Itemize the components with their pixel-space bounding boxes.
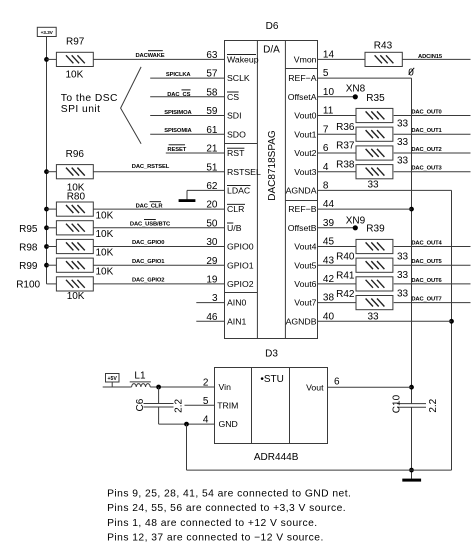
wire REF-B	[318, 208, 412, 210]
resistor R96	[56, 165, 93, 179]
wire SPISIMOA	[150, 115, 224, 117]
wire R95 left lead	[47, 227, 57, 229]
svg-text:RSTSEL: RSTSEL	[227, 167, 261, 177]
svg-text:DAC_GPIO2: DAC_GPIO2	[132, 278, 164, 284]
node bus-R99	[44, 263, 49, 268]
svg-text:8: 8	[323, 181, 329, 192]
svg-text:REF−A: REF−A	[288, 73, 316, 83]
svg-text:R100: R100	[16, 280, 40, 291]
svg-text:29: 29	[206, 256, 218, 267]
wire OffsetA	[318, 96, 355, 98]
svg-text:10K: 10K	[96, 248, 114, 259]
wire R99 left lead	[47, 264, 57, 266]
svg-text:38: 38	[323, 293, 335, 304]
svg-text:57: 57	[206, 69, 218, 80]
node AGNDB junction	[449, 319, 454, 324]
wire Vmon to R43	[318, 58, 365, 60]
node Vin/C6 junction	[156, 385, 161, 390]
svg-text:Wakeup: Wakeup	[227, 55, 259, 65]
wire R42 left lead	[318, 302, 356, 304]
svg-text:Vout: Vout	[306, 382, 324, 392]
svg-text:Vout0: Vout0	[294, 111, 316, 121]
wire R42 to DAC_OUT7	[394, 302, 471, 304]
svg-text:44: 44	[323, 199, 335, 210]
svg-text:DAC8718SPAG: DAC8718SPAG	[267, 130, 278, 201]
svg-text:10K: 10K	[66, 70, 84, 81]
svg-text:RESET: RESET	[167, 147, 186, 153]
svg-text:33: 33	[397, 251, 409, 262]
wire R40 left lead	[318, 264, 356, 266]
wire R98 to IC	[93, 246, 224, 248]
wire LDAC ground stub	[186, 190, 188, 199]
svg-text:SPICLKA: SPICLKA	[166, 72, 192, 78]
svg-text:51: 51	[206, 162, 218, 173]
wire R40 to DAC_OUT5	[394, 264, 471, 266]
svg-text:Vout6: Vout6	[294, 279, 316, 289]
resistor R42	[356, 296, 393, 310]
svg-text:3: 3	[212, 293, 218, 304]
wire Vout to ref line	[328, 386, 412, 388]
svg-text:LDAC: LDAC	[227, 186, 250, 196]
svg-text:RST: RST	[227, 148, 245, 158]
svg-text:TRIM: TRIM	[217, 401, 238, 411]
svg-text:7: 7	[323, 124, 329, 135]
resistor R97	[56, 52, 93, 66]
resistor R43	[365, 52, 402, 66]
svg-text:ADCIN15: ADCIN15	[418, 54, 443, 60]
svg-text:DAC_OUT6: DAC_OUT6	[411, 278, 442, 284]
node XN9	[353, 225, 358, 230]
svg-text:33: 33	[368, 311, 380, 322]
svg-text:To the DSC: To the DSC	[61, 93, 118, 104]
svg-text:GPIO1: GPIO1	[227, 260, 254, 270]
wire R36 left lead	[318, 133, 356, 135]
svg-text:CLR: CLR	[227, 204, 244, 214]
svg-text:10K: 10K	[96, 229, 114, 240]
svg-text:DAC_OUT5: DAC_OUT5	[411, 259, 442, 265]
svg-text:5: 5	[323, 68, 329, 79]
svg-text:40: 40	[323, 311, 335, 322]
svg-text:63: 63	[206, 50, 218, 61]
wire AGND vertical	[451, 190, 453, 470]
power +3.3V	[37, 27, 56, 36]
wire OffsetB	[318, 227, 355, 229]
node bus-R80	[44, 207, 49, 212]
svg-text:ADR444B: ADR444B	[254, 452, 299, 463]
wire R35 to DAC_OUT0	[394, 115, 471, 117]
bracket SPI group	[121, 67, 142, 144]
svg-text:DAC_OUT7: DAC_OUT7	[411, 297, 441, 303]
svg-text:SPI unit: SPI unit	[61, 104, 101, 115]
wire R100 to IC	[93, 283, 224, 285]
svg-text:Vout5: Vout5	[294, 260, 316, 270]
svg-text:33: 33	[397, 289, 409, 300]
svg-text:REF−B: REF−B	[288, 204, 316, 214]
resistor R38	[356, 165, 393, 179]
svg-text:AGNDB: AGNDB	[286, 316, 317, 326]
svg-text:21: 21	[206, 144, 218, 155]
svg-text:Vout2: Vout2	[294, 148, 316, 158]
svg-text:C10: C10	[391, 394, 402, 413]
svg-text:10: 10	[323, 87, 335, 98]
wire R97 left lead	[47, 58, 57, 60]
wire R96 to IC	[93, 171, 224, 173]
wire R95 to IC	[93, 227, 224, 229]
wire to L1	[103, 386, 132, 388]
wire R96 left lead	[47, 171, 57, 173]
svg-text:R37: R37	[336, 141, 355, 152]
svg-text:62: 62	[206, 181, 218, 192]
node bus-R95	[44, 225, 49, 230]
wire R41 left lead	[318, 283, 356, 285]
svg-text:D3: D3	[265, 349, 278, 360]
svg-text:GND: GND	[219, 419, 238, 429]
wire AIN1 stub	[196, 320, 224, 322]
svg-text:R80: R80	[67, 191, 86, 202]
wire R100 left lead	[47, 283, 57, 285]
svg-text:10K: 10K	[96, 266, 114, 277]
wire R37 left lead	[318, 152, 356, 154]
svg-text:Vout4: Vout4	[294, 242, 316, 252]
svg-text:10K: 10K	[67, 291, 85, 302]
svg-text:SDI: SDI	[227, 111, 241, 121]
svg-text:XN8: XN8	[346, 83, 366, 94]
svg-text:D6: D6	[266, 21, 279, 32]
svg-text:Vout1: Vout1	[294, 129, 316, 139]
svg-text:R39: R39	[366, 223, 385, 234]
wire RESET	[166, 152, 225, 154]
node REF-B junction	[409, 207, 414, 212]
svg-text:6: 6	[334, 377, 340, 388]
svg-text:2.2: 2.2	[428, 398, 439, 412]
svg-text:+5V: +5V	[108, 376, 118, 382]
svg-text:DAC_GPIO1: DAC_GPIO1	[132, 259, 165, 265]
svg-text:DAC_USB/BTC: DAC_USB/BTC	[130, 222, 171, 228]
wire R98 left lead	[47, 246, 57, 248]
wire SPICLKA	[150, 77, 224, 79]
svg-text:R36: R36	[336, 122, 355, 133]
IC D3 ADR444B body	[215, 368, 328, 444]
svg-text:2.2: 2.2	[174, 399, 185, 413]
svg-text:5: 5	[203, 396, 209, 407]
wire C6 to GND pin	[159, 423, 215, 425]
svg-text:19: 19	[206, 275, 218, 286]
svg-text:•STU: •STU	[260, 374, 284, 385]
resistor R98	[56, 239, 93, 253]
wire R39 left lead	[318, 246, 356, 248]
svg-text:4: 4	[203, 414, 209, 425]
svg-text:DACWAKE: DACWAKE	[135, 53, 164, 59]
op-amp U1 IC D6 DAC8718SPAG body	[225, 41, 318, 339]
svg-text:10K: 10K	[96, 210, 114, 221]
wire R80 to IC	[93, 208, 224, 210]
wire AGNDB	[318, 320, 452, 322]
inductor L1	[130, 382, 151, 387]
svg-text:R98: R98	[19, 242, 38, 253]
resistor R35	[356, 108, 393, 122]
node Vout ref junction	[409, 385, 414, 390]
svg-text:DAC_GPIO0: DAC_GPIO0	[132, 240, 164, 246]
svg-text:59: 59	[206, 106, 218, 117]
node bus-R98	[44, 244, 49, 249]
svg-text:R40: R40	[336, 252, 355, 263]
svg-text:Vmon: Vmon	[294, 55, 317, 65]
svg-text:R41: R41	[336, 270, 355, 281]
wire R43 to ADCIN15	[402, 58, 470, 60]
svg-text:R43: R43	[374, 41, 393, 52]
svg-text:DAC_OUT1: DAC_OUT1	[411, 128, 442, 134]
ground main	[402, 479, 421, 482]
svg-text:Pins 24, 55, 56 are connected: Pins 24, 55, 56 are connected to +3,3 V …	[107, 503, 346, 514]
svg-text:XN9: XN9	[346, 215, 366, 226]
svg-text:DAC_OUT0: DAC_OUT0	[411, 110, 441, 116]
svg-text:SPISIMOA: SPISIMOA	[164, 110, 192, 116]
svg-text:42: 42	[323, 274, 335, 285]
wire bottom ground bus	[187, 469, 452, 471]
svg-text:DAC_CS: DAC_CS	[167, 92, 190, 98]
svg-text:AIN1: AIN1	[227, 316, 246, 326]
wire SPISOMIA	[150, 133, 224, 135]
wire AGNDA	[318, 189, 452, 191]
resistor R100	[56, 277, 93, 291]
wire GND down	[186, 424, 188, 470]
svg-text:DAC_OUT2: DAC_OUT2	[411, 147, 441, 153]
resistor R41	[356, 277, 393, 291]
wire R38 to DAC_OUT3	[394, 171, 471, 173]
svg-text:2: 2	[203, 377, 209, 388]
svg-text:R42: R42	[336, 289, 355, 300]
resistor R80	[56, 202, 93, 216]
wire AIN0 stub	[196, 302, 224, 304]
node XN8	[353, 94, 358, 99]
node bus-R96	[44, 169, 49, 174]
capacitor C10	[397, 404, 426, 408]
node bus-R97	[44, 57, 49, 62]
svg-text:AIN0: AIN0	[227, 298, 246, 308]
node ground junction	[409, 468, 414, 473]
svg-text:SDO: SDO	[227, 129, 246, 139]
svg-text:U/B: U/B	[227, 223, 242, 233]
wire R38 left lead	[318, 171, 356, 173]
svg-text:R95: R95	[19, 224, 38, 235]
svg-text:61: 61	[206, 125, 218, 136]
wire LDAC	[187, 189, 225, 191]
resistor R36	[356, 127, 393, 141]
svg-text:20: 20	[206, 200, 218, 211]
wire R39 to DAC_OUT4	[394, 246, 471, 248]
svg-text:Vin: Vin	[219, 382, 232, 392]
svg-text:R35: R35	[366, 93, 385, 104]
svg-text:33: 33	[368, 180, 380, 191]
svg-text:6: 6	[323, 143, 329, 154]
svg-text:Pins 12, 37 are connected to −: Pins 12, 37 are connected to −12 V sourc…	[107, 533, 324, 544]
wire REF-A	[318, 77, 412, 79]
svg-text:D/A: D/A	[263, 45, 280, 56]
wire R80 left lead	[47, 208, 57, 210]
wire R36 to DAC_OUT1	[394, 133, 471, 135]
svg-text:11: 11	[323, 106, 334, 117]
svg-text:R96: R96	[66, 149, 85, 160]
wire R37 to DAC_OUT2	[394, 152, 471, 154]
svg-text:R38: R38	[336, 159, 355, 170]
svg-text:33: 33	[397, 137, 409, 148]
svg-text:DAC_CLR: DAC_CLR	[136, 204, 164, 210]
svg-text:R97: R97	[66, 37, 85, 48]
svg-text:OffsetB: OffsetB	[288, 223, 317, 233]
svg-text:58: 58	[206, 87, 218, 98]
resistor R37	[356, 146, 393, 160]
resistor R40	[356, 258, 393, 272]
resistor R39	[356, 239, 393, 253]
svg-text:39: 39	[323, 218, 335, 229]
capacitor C6	[144, 387, 174, 424]
wire L1 to Vin	[150, 386, 215, 388]
svg-text:33: 33	[397, 270, 409, 281]
svg-text:CS: CS	[227, 92, 239, 102]
svg-text:Vout3: Vout3	[294, 167, 316, 177]
svg-text:DAC_OUT3: DAC_OUT3	[411, 166, 442, 172]
wire REF vertical	[411, 78, 413, 404]
svg-text:GPIO2: GPIO2	[227, 279, 254, 289]
svg-text:SPISOMIA: SPISOMIA	[164, 128, 192, 134]
svg-text:DAC_OUT4: DAC_OUT4	[411, 241, 442, 247]
svg-text:14: 14	[323, 50, 335, 61]
svg-text:43: 43	[323, 255, 335, 266]
wire TRIM	[185, 404, 215, 406]
svg-text:45: 45	[323, 237, 335, 248]
svg-text:GPIO0: GPIO0	[227, 242, 254, 252]
svg-text:33: 33	[397, 118, 409, 129]
svg-text:C6: C6	[135, 398, 146, 411]
svg-text:Pins 1, 48 are connected to +1: Pins 1, 48 are connected to +12 V source…	[107, 518, 318, 529]
svg-text:Vout7: Vout7	[294, 298, 316, 308]
wire R35 left lead	[318, 115, 356, 117]
svg-text:30: 30	[206, 237, 218, 248]
resistor R95	[56, 221, 93, 235]
svg-text:33: 33	[397, 156, 409, 167]
svg-text:+3.3V: +3.3V	[41, 30, 54, 36]
wire R99 to IC	[93, 264, 224, 266]
svg-text:DAC_RSTSEL: DAC_RSTSEL	[132, 164, 170, 170]
svg-text:46: 46	[206, 312, 218, 323]
wire DAC_CS	[150, 96, 224, 98]
node GND junction	[184, 422, 189, 427]
svg-text:Pins 9, 25, 28, 41, 54 are con: Pins 9, 25, 28, 41, 54 are connected to …	[107, 489, 351, 500]
svg-text:L1: L1	[134, 370, 146, 381]
ground LDAC	[179, 199, 196, 202]
svg-text:AGNDA: AGNDA	[286, 186, 317, 196]
wire +5V stub	[111, 382, 113, 387]
wire +3.3V bus vertical	[46, 37, 48, 284]
svg-text:OffsetA: OffsetA	[288, 92, 317, 102]
resistor R99	[56, 258, 93, 272]
power +5V	[106, 374, 120, 383]
svg-text:R99: R99	[19, 261, 38, 272]
wire R97 to IC	[93, 58, 224, 60]
wire R41 to DAC_OUT6	[394, 283, 471, 285]
svg-text:50: 50	[206, 218, 218, 229]
svg-text:SCLK: SCLK	[227, 73, 250, 83]
svg-text:4: 4	[323, 162, 329, 173]
